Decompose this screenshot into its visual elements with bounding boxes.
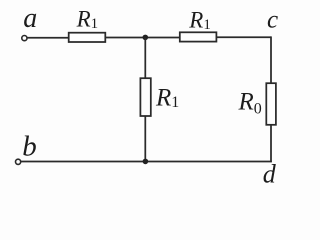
wire a to R1 (27, 37, 68, 39)
terminal a (22, 36, 27, 41)
junction node bottom (143, 159, 149, 165)
wire node to middle R1 (144, 37, 146, 78)
wire middle R1 to bottom node (144, 116, 146, 162)
wire node c down to R0 (270, 36, 272, 83)
svg-text:b: b (22, 130, 37, 162)
wire R0 down to node d (270, 125, 272, 162)
resistor R0 box (266, 83, 276, 125)
wire R1 to R1 through node (105, 37, 180, 39)
svg-text:d: d (263, 160, 277, 187)
resistor R1 left box (69, 33, 106, 42)
junction node top (143, 35, 149, 41)
svg-text:a: a (23, 3, 37, 34)
resistor R1 middle box (140, 78, 150, 116)
bottom wire b to d (21, 161, 272, 163)
wire R1 to node c (216, 36, 271, 38)
terminal b (16, 159, 21, 164)
resistor R1 top-right box (180, 32, 217, 41)
svg-text:c: c (267, 7, 278, 34)
